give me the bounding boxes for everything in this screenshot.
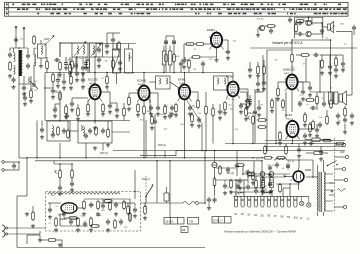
wire v248b xyxy=(247,176,249,181)
resistor R105 xyxy=(257,65,260,76)
wire h310 xyxy=(298,81,310,83)
resistor R8 xyxy=(95,126,98,137)
wire ift2 out xyxy=(170,82,179,88)
capacitor C97 xyxy=(256,81,260,87)
IF filter component Z1 xyxy=(163,51,166,65)
ground r90 xyxy=(320,71,324,75)
resistor R14 xyxy=(175,103,178,114)
wire ub2 xyxy=(57,239,62,241)
resistor R3 xyxy=(69,63,72,74)
capacitor C42 xyxy=(106,219,110,225)
wire v3 bottom xyxy=(184,120,186,158)
wire pt mid tap xyxy=(329,194,335,196)
resistor R17 xyxy=(224,101,227,112)
wire ot down xyxy=(330,40,332,92)
junction node 2 xyxy=(76,56,78,58)
svg-text:Varianti per MI 572 A: Varianti per MI 572 A xyxy=(272,41,303,45)
junction node 38 xyxy=(169,160,171,162)
wire bank up2 xyxy=(261,161,263,197)
mech link dashed xyxy=(145,176,147,210)
resistor R34 xyxy=(219,165,222,176)
ground pu xyxy=(207,206,211,210)
wire det down2 xyxy=(85,143,87,158)
capacitor C91 xyxy=(70,181,74,187)
wire h180 xyxy=(215,179,239,181)
junction node 18 xyxy=(143,157,145,159)
junction node 39 xyxy=(204,157,206,159)
resistor R40 xyxy=(83,200,86,211)
junction node 11 xyxy=(94,120,96,122)
wire c18 up xyxy=(150,92,158,94)
ground c87 xyxy=(269,189,273,193)
junction node 35 xyxy=(59,157,61,159)
svg-text:FM (3): FM (3) xyxy=(158,143,166,147)
IF can box T2 xyxy=(156,76,171,89)
wire fm into tube xyxy=(94,57,96,85)
ground c55 xyxy=(81,85,85,89)
capacitor C112 xyxy=(212,197,216,203)
wire h57b xyxy=(200,56,217,58)
wire box v103 xyxy=(102,199,104,203)
capacitor C31 xyxy=(318,122,322,128)
capacitor C107 xyxy=(315,127,319,133)
node hv2 xyxy=(319,91,321,93)
wire ab2 xyxy=(279,183,281,186)
wire psu line xyxy=(243,173,290,175)
wire c88 up xyxy=(112,33,114,37)
capacitor C85 xyxy=(153,119,157,125)
capacitor C65 xyxy=(197,117,201,123)
wire p2 up xyxy=(59,164,61,171)
wire h55d xyxy=(336,54,343,56)
capacitor C68 xyxy=(308,85,312,91)
wire r88 up xyxy=(144,203,146,207)
wire v213b xyxy=(212,115,214,143)
IF coil L13 xyxy=(217,78,219,84)
tube V4 pin stubs xyxy=(226,86,241,98)
resistor R20 xyxy=(257,126,268,129)
wire v247 xyxy=(246,92,248,97)
capacitor C98 xyxy=(74,63,78,69)
wire s11 dn xyxy=(145,197,147,204)
wire v76b xyxy=(75,69,77,73)
variant earphone xyxy=(328,22,335,33)
wire below box h xyxy=(27,234,40,236)
junction node 3 xyxy=(94,56,96,58)
wire r10 dn xyxy=(173,61,175,72)
svg-text:ECH81: ECH81 xyxy=(137,79,147,83)
wire conv bottom xyxy=(143,120,145,158)
resistor R94 xyxy=(47,239,58,242)
resistor R57 xyxy=(77,107,80,118)
rail drop 1 xyxy=(116,44,118,50)
capacitor C12 xyxy=(62,128,66,134)
wire riser s8 xyxy=(289,188,291,196)
wire q2 top xyxy=(308,18,310,21)
wire long v306 xyxy=(305,58,307,82)
svg-text:50 50 1: 50 50 1 xyxy=(166,220,175,223)
wire pt b2 xyxy=(323,212,325,216)
wire ifcan down xyxy=(128,72,130,75)
FM osc coil L5 xyxy=(77,46,78,54)
wire vol riser xyxy=(156,161,158,203)
bus mid156 left xyxy=(140,155,176,157)
wire left col down2 xyxy=(26,158,28,196)
wire c88 dn xyxy=(112,43,114,50)
wire vtop1 xyxy=(295,22,297,25)
wire v317a xyxy=(316,92,318,97)
wire ifcan down2 xyxy=(116,73,118,84)
resistor R56 xyxy=(123,107,126,118)
junction node 29 xyxy=(298,159,300,161)
speaker LS xyxy=(339,91,347,105)
wire fm top left xyxy=(60,42,72,44)
wire v246 xyxy=(245,104,247,109)
wire fm v2 xyxy=(82,57,84,64)
capacitor C51 xyxy=(11,77,15,83)
junction node 33 xyxy=(26,157,28,159)
node hv3 xyxy=(201,150,203,152)
ground below box xyxy=(38,238,42,242)
wire W106b xyxy=(46,68,48,73)
svg-text:6BQ5: 6BQ5 xyxy=(286,118,292,120)
wire fm v60 xyxy=(59,43,61,57)
resistor R100 xyxy=(65,105,68,116)
wire v345 xyxy=(344,106,346,109)
junction node 32 xyxy=(242,173,244,175)
bus right top2 xyxy=(265,140,345,142)
title block row line 2 xyxy=(5,11,349,13)
ground c91 xyxy=(70,188,74,192)
ground c86 xyxy=(260,189,264,193)
ground c74 xyxy=(319,157,323,161)
svg-text:50 50.1 7: 50 50.1 7 xyxy=(213,220,223,222)
wire box w4 xyxy=(134,203,136,206)
ground R30 xyxy=(278,141,282,145)
wire v88b xyxy=(87,67,89,72)
capacitor C41 xyxy=(114,202,118,208)
junction node 48 xyxy=(18,161,20,163)
ground c68 xyxy=(308,93,312,97)
capacitor C57 xyxy=(51,88,55,94)
wire fm h57 xyxy=(103,56,120,58)
junction node 24 xyxy=(261,160,263,162)
wire q2 in xyxy=(295,22,298,24)
node var top xyxy=(308,17,310,19)
ground C21 xyxy=(239,110,243,114)
ground r63 xyxy=(150,126,154,130)
wire box h5 xyxy=(64,217,78,219)
ground fm1 xyxy=(58,73,62,77)
svg-text:15k: 15k xyxy=(30,89,33,91)
wire h180b xyxy=(236,179,248,181)
wire AVC diagonal xyxy=(184,95,203,124)
resistor R83 xyxy=(295,23,298,34)
antenna coil L3 xyxy=(14,66,16,75)
wire det down xyxy=(59,143,61,158)
wire v270 xyxy=(269,177,271,181)
resistor R101 xyxy=(279,183,282,194)
capacitor C110 xyxy=(254,188,258,194)
capacitor C26 xyxy=(297,21,303,25)
ground box5 xyxy=(133,214,137,218)
wire bank up3 xyxy=(282,188,284,196)
wire v331a xyxy=(330,92,332,101)
wire q2 out xyxy=(311,22,323,24)
wire antenna down 1 xyxy=(15,31,17,48)
ground c108 xyxy=(53,114,57,118)
resistor R16 xyxy=(205,105,208,116)
ground l19 xyxy=(39,64,43,68)
resistor R31 xyxy=(312,120,315,131)
transformer tap 1 xyxy=(325,173,333,175)
wire v5 down xyxy=(216,49,218,58)
resistor R73 xyxy=(335,142,346,145)
svg-text:1n: 1n xyxy=(90,217,92,219)
svg-text:AB: AB xyxy=(182,229,186,232)
wire tone feed xyxy=(53,161,55,164)
wire ant mid xyxy=(23,76,25,84)
svg-text:68k: 68k xyxy=(181,124,184,126)
ground c54 xyxy=(118,67,122,71)
wire v107b xyxy=(106,33,108,43)
ground C17 xyxy=(149,112,153,116)
wire v1 down xyxy=(94,102,96,113)
junction node 12 xyxy=(132,72,134,74)
wire fm v1 xyxy=(76,57,78,70)
wire det out xyxy=(112,131,130,133)
tube V1 ECC85 xyxy=(89,83,100,102)
ground G107 xyxy=(56,84,60,88)
svg-text:12k: 12k xyxy=(209,58,212,60)
wire av line xyxy=(36,121,38,158)
junction node 4 xyxy=(59,72,61,74)
wire v3 top xyxy=(184,73,186,83)
wire W101a xyxy=(65,57,67,61)
capacitor C17 xyxy=(149,105,153,111)
wire l19 dn xyxy=(40,58,42,64)
wire v286 xyxy=(285,144,287,147)
capacitor C82 xyxy=(62,211,66,217)
svg-text:68k: 68k xyxy=(188,44,191,46)
svg-text:EM84: EM84 xyxy=(207,28,215,32)
resistor R43 xyxy=(123,200,126,211)
ground C37 xyxy=(238,186,242,190)
terminal mains 5 xyxy=(343,205,346,208)
resistor R55 xyxy=(52,73,55,84)
coil L19 xyxy=(41,46,42,54)
wire v4 top xyxy=(232,73,234,80)
tap terminal t1 xyxy=(331,190,333,192)
ground r62 xyxy=(190,123,194,127)
capacitor C60 xyxy=(51,132,55,138)
capacitor C56 xyxy=(62,79,66,85)
ground c64 xyxy=(218,116,222,120)
wire r16 dn xyxy=(205,113,207,150)
svg-text:1M: 1M xyxy=(34,90,37,92)
junction node 20 xyxy=(205,150,207,152)
wire v1 bottom xyxy=(94,112,96,124)
dial coil row xyxy=(48,193,120,195)
title block col line xyxy=(8,2,10,16)
electrolytic C78 xyxy=(268,181,272,188)
wire box h1 xyxy=(77,207,84,209)
svg-text:15k: 15k xyxy=(124,227,127,229)
svg-text:47k: 47k xyxy=(281,110,284,112)
junction node 16 xyxy=(184,72,186,74)
capacitor C1 xyxy=(8,52,12,58)
resistor R30 xyxy=(279,131,282,142)
antenna coil L2 xyxy=(14,53,16,62)
tube V3 pin stubs xyxy=(177,89,192,101)
wire ht to rect xyxy=(306,176,313,178)
capacitor C73 xyxy=(297,147,301,153)
svg-text:47k: 47k xyxy=(20,39,23,41)
wire fm dip 1 xyxy=(4,161,19,163)
wire p2 dn xyxy=(59,177,61,186)
junction node 43 xyxy=(235,179,237,181)
wire c16 up xyxy=(173,36,175,39)
svg-text:A.F.115: A.F.115 xyxy=(257,18,265,21)
wire v72b xyxy=(71,98,73,101)
wire r18 up xyxy=(247,89,249,100)
wire z1 dn xyxy=(163,65,165,73)
wire v305 xyxy=(304,112,306,115)
wire v71 xyxy=(70,73,72,77)
variant divider line xyxy=(250,47,357,49)
ground c71 xyxy=(350,121,354,125)
ground r92 xyxy=(54,228,58,232)
resistor R63 xyxy=(151,115,154,126)
resistor R59 xyxy=(107,128,110,139)
resistor R54 xyxy=(70,75,73,86)
rail drop 3 xyxy=(95,44,97,58)
capacitor C63 xyxy=(170,105,174,111)
title block col letters xyxy=(6,4,8,15)
wire v2 down2 xyxy=(143,113,145,120)
wire v343 xyxy=(342,55,344,61)
svg-text:EF89: EF89 xyxy=(226,75,234,79)
wire fuse r xyxy=(322,152,328,154)
tube V5 pin stubs xyxy=(209,37,224,49)
capacitor C71 xyxy=(350,113,354,119)
coil L25 xyxy=(264,192,272,193)
wire vtop2 xyxy=(321,22,323,27)
ground r88 xyxy=(143,216,147,220)
electrolytic C16 xyxy=(172,39,176,46)
wire fm dip v xyxy=(18,162,20,170)
resistor R35 xyxy=(235,164,246,167)
wire h88 xyxy=(45,87,53,89)
wire v299 xyxy=(298,144,300,148)
wire box v2 xyxy=(59,214,61,226)
resistor R13 xyxy=(128,96,131,107)
wire h104b xyxy=(55,103,60,105)
wire v225 xyxy=(224,180,226,182)
capacitor C64 xyxy=(218,109,222,115)
wire h176 xyxy=(248,175,262,177)
svg-text:47k: 47k xyxy=(252,180,255,182)
wire v4 b+ xyxy=(213,72,233,74)
resistor R76 xyxy=(255,179,258,190)
bus right top xyxy=(225,143,345,145)
capacitor C109 xyxy=(297,32,303,36)
wire v336a xyxy=(335,55,337,59)
capacitor C92 xyxy=(313,53,319,57)
capacitor C111 xyxy=(207,197,211,203)
resistor R42 xyxy=(103,200,114,203)
wire spk link xyxy=(347,94,353,96)
resistor R10 xyxy=(173,53,176,64)
wire r86 dn xyxy=(118,49,120,57)
coil L16 xyxy=(28,77,29,82)
wire rect top xyxy=(298,160,300,168)
wire term5 xyxy=(335,206,344,208)
wire long v146 xyxy=(145,120,147,158)
wire above bank 2 xyxy=(276,183,300,185)
wire pt top2 xyxy=(323,160,325,172)
resistor R19 xyxy=(257,119,268,122)
transistor Q3 xyxy=(306,31,311,36)
FM tuner coil box 2 xyxy=(90,43,103,57)
ground v299 xyxy=(297,154,301,158)
resistor R97 xyxy=(245,107,248,118)
wire c24 v xyxy=(227,40,229,49)
wire v6 down xyxy=(291,92,293,101)
wire var q1b xyxy=(257,28,259,33)
wire h61 xyxy=(181,59,189,61)
resistor R9 xyxy=(165,53,168,64)
wire box pins xyxy=(66,212,72,214)
junction node 19 xyxy=(184,157,186,159)
capacitor C58 xyxy=(115,107,119,113)
capacitor C72 xyxy=(308,141,314,145)
capacitor C2 xyxy=(26,53,30,59)
resistor R11 xyxy=(137,103,140,114)
wire c22 v xyxy=(254,89,256,109)
wire v324 xyxy=(323,92,325,101)
ground r78b xyxy=(76,228,80,232)
resistor R15 xyxy=(197,99,200,110)
node hv1 xyxy=(275,143,277,145)
wire v117 xyxy=(116,103,118,107)
resistor R93 xyxy=(127,205,130,216)
wire box w1 xyxy=(48,202,61,204)
wire long v276 xyxy=(275,97,277,144)
switch S2 wafer xyxy=(241,196,244,207)
terminal mains 2 xyxy=(345,155,348,158)
wire lw1 xyxy=(9,48,11,51)
wire h55b xyxy=(320,54,330,56)
wire v124b xyxy=(123,115,125,120)
potentiometer P2 tone xyxy=(59,169,62,180)
coil L26 xyxy=(238,192,243,193)
ground C30 xyxy=(303,141,307,145)
wire v264b xyxy=(263,73,265,80)
fuse F2 xyxy=(314,152,322,155)
wire W102b xyxy=(71,68,73,73)
capacitor C53 xyxy=(97,57,101,63)
wire v78 xyxy=(77,104,79,109)
wire pickup h xyxy=(141,202,184,204)
wire r27 v xyxy=(277,82,279,89)
IF can box T1 xyxy=(125,49,133,73)
ground c99 xyxy=(48,215,52,219)
resistor R52 xyxy=(112,59,115,70)
transistor Q1 xyxy=(258,25,265,30)
capacitor C75 xyxy=(223,183,227,189)
pickup PU xyxy=(183,202,198,205)
